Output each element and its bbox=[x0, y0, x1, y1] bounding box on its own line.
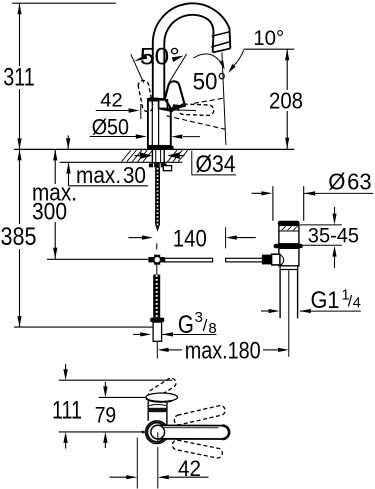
threaded rod bbox=[155, 167, 160, 232]
svg-text:50°: 50° bbox=[193, 69, 227, 96]
max30 arrow down bbox=[66, 136, 70, 150]
79 arrow up bbox=[103, 432, 107, 448]
G38 connector nut bbox=[150, 318, 164, 323]
svg-text:/: / bbox=[203, 316, 208, 335]
angle line left bbox=[131, 54, 144, 83]
drain flange bbox=[278, 221, 300, 226]
top-view dashed lever upper-right bbox=[174, 406, 225, 425]
label G114 bbox=[311, 287, 361, 314]
O34 arrow left bbox=[135, 152, 153, 159]
faucet body bbox=[148, 99, 171, 146]
lever capsule solid bbox=[158, 425, 229, 439]
35-45 dim line lower bbox=[332, 246, 336, 268]
10deg arc bbox=[233, 50, 244, 66]
tailpipe center line bbox=[288, 270, 290, 357]
42 dim line right bbox=[158, 475, 209, 479]
drain pivot nut black bbox=[262, 255, 272, 265]
dimension 311 arrow down bbox=[17, 138, 21, 149]
dimension 385 line upper bbox=[19, 149, 21, 224]
angle arrow 2 bbox=[219, 60, 225, 70]
lever solid bbox=[165, 81, 185, 113]
svg-text:10°: 10° bbox=[253, 27, 284, 50]
drain lower body bbox=[279, 248, 299, 266]
111 arrow down bbox=[63, 364, 67, 380]
svg-text:300: 300 bbox=[32, 199, 67, 226]
42 ext tick bbox=[140, 104, 142, 119]
center tick arrow bbox=[142, 430, 146, 433]
dimension 311 line lower bbox=[19, 89, 21, 149]
O63 ext line left bbox=[272, 186, 274, 221]
G38 arrow right bbox=[162, 332, 173, 336]
label G38 bbox=[178, 309, 217, 339]
pop-up rod A bbox=[165, 258, 213, 262]
rod cross fitting bbox=[148, 255, 164, 265]
G38 arrow left bbox=[133, 332, 151, 336]
column ring bbox=[149, 405, 166, 406]
O50 arrow left bbox=[171, 134, 200, 138]
deck hatching bbox=[122, 150, 188, 161]
10deg arrow bbox=[228, 64, 235, 73]
O34 leader box bbox=[192, 151, 236, 175]
max30 underline bbox=[69, 185, 149, 187]
svg-text:140: 140 bbox=[173, 225, 207, 252]
dimension 385 line lower bbox=[19, 249, 21, 327]
dimension 311 arrow up bbox=[17, 3, 21, 14]
hose center line bbox=[156, 243, 158, 249]
G114 arrow right bbox=[300, 309, 311, 313]
body top cap bbox=[148, 98, 158, 102]
max180 arrow right bbox=[263, 348, 289, 352]
lock block bbox=[163, 166, 171, 171]
angle arc 2 bbox=[194, 54, 224, 67]
lever dashed left bbox=[138, 80, 153, 111]
dimension 385 arrow up bbox=[17, 149, 21, 160]
deck top line bbox=[14, 148, 294, 150]
top-view dashed lever lower-right bbox=[172, 440, 222, 458]
42 arrow right bbox=[129, 108, 140, 112]
G114 underline bbox=[300, 310, 361, 312]
center line vertical bbox=[157, 432, 159, 443]
10deg shelf line bbox=[244, 48, 295, 50]
208 arrow down bbox=[285, 138, 289, 149]
svg-text:311: 311 bbox=[3, 64, 35, 92]
svg-text:42: 42 bbox=[178, 456, 201, 481]
drain upper body bbox=[279, 225, 299, 243]
tailpipe bbox=[280, 270, 298, 319]
ext line spout outlet bbox=[99, 396, 147, 398]
O50 arrow right bbox=[136, 134, 147, 138]
svg-text:35-45: 35-45 bbox=[308, 224, 359, 247]
42 dim line left bbox=[110, 475, 138, 479]
O63 arrow left bbox=[252, 191, 273, 195]
42 arrow left (at body) bbox=[160, 107, 197, 111]
spout column top view bbox=[148, 401, 167, 425]
140 dim line right bbox=[226, 235, 256, 239]
208 dim line lower bbox=[286, 111, 288, 149]
O63 arrow right bbox=[304, 191, 373, 195]
lever dashed right bbox=[178, 104, 213, 115]
mounting nut bbox=[149, 163, 167, 167]
svg-text:Ø50: Ø50 bbox=[92, 114, 129, 139]
svg-text:385: 385 bbox=[1, 223, 37, 251]
svg-text:Ø34: Ø34 bbox=[196, 151, 236, 178]
max300 dim line lower bbox=[54, 222, 56, 259]
42 dim line bbox=[96, 110, 129, 112]
svg-text:G: G bbox=[178, 311, 194, 339]
O50 dim line bbox=[90, 136, 136, 138]
drain pivot nut bbox=[272, 254, 280, 265]
spout outlet oval bbox=[146, 393, 178, 402]
svg-text:max. 30: max. 30 bbox=[76, 162, 146, 188]
dimension 311 line upper bbox=[19, 3, 21, 66]
140 dim line left bbox=[128, 235, 153, 239]
35-45 ext line lower bbox=[299, 244, 342, 246]
max300 dim line upper bbox=[54, 149, 56, 184]
208 arrow up bbox=[285, 49, 289, 60]
drain ring bbox=[274, 244, 303, 249]
svg-text:max.180: max.180 bbox=[185, 338, 261, 365]
lever axis dashed B bbox=[167, 116, 226, 130]
O34 arrow right bbox=[167, 152, 184, 159]
drain pivot arc bbox=[280, 255, 284, 265]
svg-text:8: 8 bbox=[208, 320, 216, 337]
svg-text:111: 111 bbox=[52, 396, 82, 424]
pop-up rod B bbox=[226, 258, 263, 262]
extension line spout top bbox=[12, 2, 116, 4]
extension line pop-up rod bbox=[47, 258, 148, 260]
angle line right bbox=[169, 54, 187, 83]
42 ext line left bbox=[136, 438, 138, 489]
ext line lever tip bbox=[59, 379, 173, 381]
spout aerator bbox=[211, 32, 230, 53]
max300 arrow up bbox=[53, 149, 57, 160]
outlet axis line bbox=[222, 52, 226, 144]
G114 arrow left bbox=[261, 309, 280, 313]
svg-text:4: 4 bbox=[353, 296, 361, 312]
top-view dashed lever up bbox=[148, 378, 176, 399]
dimension 385 arrow down bbox=[17, 316, 21, 327]
base gasket bbox=[147, 146, 174, 150]
spout outline bbox=[153, 3, 231, 99]
208 dim line upper bbox=[286, 49, 288, 90]
35-45 ext line upper bbox=[299, 224, 342, 226]
svg-text:G1: G1 bbox=[311, 287, 340, 314]
79 arrow down bbox=[103, 382, 107, 398]
body cartridge line bbox=[152, 101, 158, 145]
angle arrow right 1 bbox=[172, 56, 184, 62]
column dark band bbox=[148, 408, 167, 412]
O63 ext line right bbox=[303, 186, 305, 221]
outlet axis extension bbox=[225, 227, 227, 248]
35-45 dim line upper bbox=[332, 207, 336, 225]
shank bbox=[152, 149, 164, 162]
lever cap circle bbox=[151, 425, 165, 439]
extension line hose end bbox=[14, 326, 153, 328]
supply hose lower bbox=[153, 275, 160, 318]
max300 arrow down bbox=[53, 248, 57, 259]
111 arrow up bbox=[63, 432, 67, 449]
body circle ring bbox=[147, 423, 166, 442]
svg-text:Ø 63: Ø 63 bbox=[328, 168, 372, 194]
max30 arrow up bbox=[66, 163, 70, 186]
svg-text:42: 42 bbox=[100, 90, 123, 111]
max180 arrow left bbox=[158, 348, 182, 352]
hose center line 2 bbox=[156, 263, 158, 274]
lever axis dashed A bbox=[194, 98, 225, 104]
svg-text:208: 208 bbox=[269, 88, 303, 114]
angle arrow left 1 bbox=[134, 54, 147, 61]
42 ext line right (center) bbox=[157, 447, 159, 489]
drain coupling bbox=[280, 266, 298, 270]
supply pipe center line bbox=[156, 341, 158, 358]
body circle outer bbox=[146, 421, 169, 444]
center line horizontal bbox=[59, 431, 146, 433]
deck underside line bbox=[60, 161, 183, 163]
supply pipe bbox=[153, 322, 162, 341]
svg-text:79: 79 bbox=[95, 402, 117, 427]
G38 underline bbox=[162, 334, 217, 336]
handle pivot bbox=[159, 100, 168, 109]
